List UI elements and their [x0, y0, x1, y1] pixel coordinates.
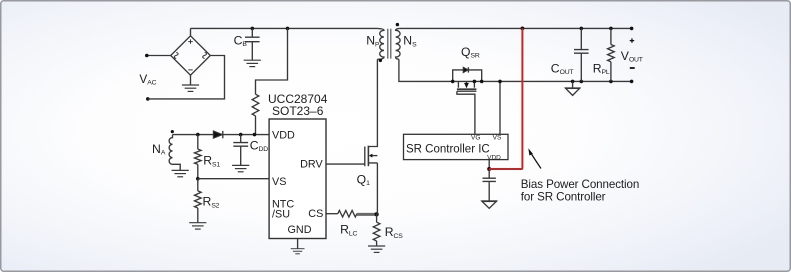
transistor QSR source stub — [473, 81, 475, 87]
svg-text:GND: GND — [288, 224, 312, 236]
capacitor CDD — [233, 135, 248, 166]
IC U1 UCC28704 box — [269, 119, 326, 239]
node: RPL bottom junction — [609, 80, 613, 84]
node: QSR loop left junction — [451, 80, 455, 84]
wire: top rail down to startup resistor — [256, 28, 288, 94]
bridge minus mark — [188, 69, 192, 71]
resistor RS1 — [195, 135, 202, 179]
wire: bridge right vertex loop to VAC lower terminal — [148, 56, 225, 99]
wire: startup resistor to VDD node — [255, 116, 257, 135]
IC U2 SR Controller box — [404, 134, 509, 159]
svg-text:Bias Power Connection: Bias Power Connection — [521, 178, 639, 191]
wire: DRV pin to Q1 gate — [326, 163, 365, 165]
svg-text:VDD: VDD — [272, 130, 295, 142]
transistor QSR body diode loop — [453, 70, 482, 82]
node: COUT bottom junction — [580, 80, 584, 84]
transformer T1 primary winding NP — [377, 28, 384, 59]
ground: output (hollow triangle) — [571, 80, 575, 84]
wire: secondary bottom to output return rail — [399, 59, 632, 81]
node: CB junction on top rail — [251, 27, 255, 31]
label VOUT minus mark — [630, 67, 635, 69]
bridge left ac tilde — [174, 52, 178, 58]
node: VAC upper terminal — [145, 54, 149, 58]
ground: IC GND — [291, 249, 305, 254]
node: startup resistor junction on top rail — [286, 27, 290, 31]
bridge right ac tilde — [203, 52, 207, 58]
label VOUT plus mark — [630, 38, 635, 42]
node: red bias tap junction on top rail — [521, 27, 525, 31]
ground: bridge — [182, 85, 199, 91]
node: NS polarity dot — [396, 23, 399, 26]
diode D1 (aux rectifier) — [213, 131, 222, 138]
svg-text:CS: CS — [308, 208, 323, 220]
diode: QSR body diode — [463, 67, 468, 72]
wire: CS pin to RLC — [326, 213, 338, 215]
wire: bridge top vertex to top rail — [190, 28, 192, 35]
capacitor CB — [245, 28, 260, 60]
ground: CB — [244, 60, 261, 66]
svg-text:VG: VG — [471, 135, 480, 142]
transistor QSR channel bar — [457, 88, 477, 90]
wire: SR VDD pin stub — [488, 160, 490, 169]
transformer T1 core — [388, 29, 391, 59]
node: RPL top junction — [609, 27, 613, 31]
ground: SR bias (hollow triangle) — [482, 201, 497, 208]
svg-text:VDD: VDD — [487, 154, 501, 161]
transistor Q1 gate bar — [364, 147, 366, 167]
node: VS sense junction — [498, 80, 502, 84]
wire: red bias power connection — [489, 28, 522, 169]
wire: VAC upper terminal to bridge left vertex — [147, 55, 171, 57]
resistor RPL — [608, 28, 615, 81]
wire: IC GND pin to ground — [297, 239, 299, 249]
svg-text:SR Controller IC: SR Controller IC — [406, 144, 490, 156]
svg-text:VS: VS — [272, 176, 286, 188]
wire: QSR source rail to SR controller VS — [499, 81, 501, 134]
bridge rectifier BR1 diamond — [171, 36, 211, 75]
resistor RLC — [338, 210, 357, 217]
node: CDD junction — [239, 133, 243, 137]
node: VDD pin junction — [253, 133, 257, 137]
node: VS divider junction — [196, 177, 200, 181]
svg-text:VS: VS — [493, 135, 502, 142]
node: SR VDD bias junction — [487, 167, 491, 171]
ground: RCS — [368, 246, 385, 252]
capacitor: SR bias cap — [483, 169, 496, 201]
annotation arrow to red wire — [531, 153, 542, 169]
wire: divider junction to IC VS pin — [198, 178, 269, 180]
transistor Q1 source stub — [368, 163, 377, 214]
transistor QSR gate bar and lead to VG — [457, 91, 477, 134]
node: VOUT+ terminal — [630, 27, 634, 31]
wire: bridge bottom vertex to ground — [190, 75, 192, 85]
wire: secondary top rail to VOUT+ — [399, 27, 631, 29]
svg-text:SOT23–6: SOT23–6 — [272, 104, 324, 118]
node: NP polarity dot — [379, 59, 382, 62]
wire: primary-side top rail — [191, 27, 378, 29]
wire: thick CS sense segment — [357, 213, 377, 216]
capacitor COUT — [574, 28, 589, 81]
wire: NA winding top to IC VDD pin — [173, 134, 270, 136]
node: VAC lower terminal — [146, 97, 150, 101]
node: NA polarity dot — [171, 130, 174, 133]
transistor Q1 substrate arrow — [372, 155, 377, 157]
ground: NA — [172, 170, 189, 176]
node: QSR source junction — [473, 80, 477, 84]
resistor: startup (HV) — [252, 94, 259, 116]
node: QSR loop right junction — [480, 80, 484, 84]
transistor Q1 channel bar — [367, 146, 369, 167]
inductor NA auxiliary winding — [169, 135, 180, 171]
svg-text:DRV: DRV — [300, 159, 323, 171]
ground: RS2 — [189, 223, 206, 229]
svg-text:for SR Controller: for SR Controller — [521, 190, 606, 203]
svg-text:/SU: /SU — [272, 209, 290, 221]
resistor RS2 — [195, 179, 202, 223]
transistor QSR substrate arrow — [466, 81, 468, 83]
node: COUT top junction — [580, 27, 584, 31]
node: VOUT- terminal — [630, 80, 634, 84]
transformer T1 secondary winding NS — [396, 28, 401, 59]
transistor QSR drain stub — [457, 81, 459, 87]
wire: primary to Q1 drain — [368, 59, 377, 146]
node: RS1 top junction — [196, 133, 200, 137]
node: CS/RCS/Q1-source junction — [374, 212, 378, 216]
resistor RCS — [373, 214, 380, 246]
bridge plus mark — [188, 39, 192, 43]
ground: CDD — [232, 165, 249, 171]
